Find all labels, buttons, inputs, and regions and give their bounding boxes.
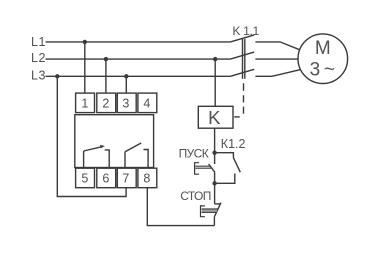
terminal 5 box: [76, 168, 95, 188]
pushbutton СТОП cap bracket: [201, 206, 205, 217]
wire pole 2 to motor: [255, 58, 298, 60]
wire L2 bus: [46, 58, 231, 60]
svg-text:K: K: [208, 107, 221, 128]
wire L3 bus: [46, 75, 231, 77]
wire L2 to terminal 2: [105, 59, 107, 93]
contactor K1.1 linkage bar (double line): [242, 39, 244, 79]
wire coil K to start node: [214, 128, 216, 153]
svg-text:K 1.1: K 1.1: [232, 24, 259, 38]
svg-text:L2: L2: [31, 51, 46, 65]
internal contact 7-8 blade: [125, 143, 141, 152]
terminal 4 box: [138, 93, 157, 113]
node junction L1-terminal1: [83, 40, 87, 44]
wire L1 bus: [46, 41, 231, 43]
svg-text:3 ~: 3 ~: [310, 60, 335, 81]
svg-text:L1: L1: [31, 35, 46, 49]
contact K1.2 branch top wire: [215, 153, 234, 158]
terminal 7 box: [117, 168, 136, 188]
mechanical link dashed to coil K: [243, 83, 245, 91]
terminal 3 box: [117, 93, 136, 113]
motor M 3~ circle: [298, 34, 348, 84]
internal contact 5-6 left lead: [83, 151, 85, 168]
contactor K1.1 pole 2 blade: [230, 52, 254, 59]
svg-text:M: M: [315, 38, 331, 59]
wire L2 to coil K: [214, 59, 216, 106]
node junction L2-coil K: [213, 57, 217, 61]
wire pole 3 to motor: [255, 70, 300, 77]
coil K box: [198, 106, 233, 128]
node bottom parallel junction: [212, 181, 216, 185]
wire pole 1 to motor: [255, 42, 299, 50]
svg-text:К1.2: К1.2: [221, 137, 246, 151]
contactor K1.1 pole 3 blade: [230, 69, 254, 76]
pushbutton ПУСК bottom lead: [214, 172, 216, 183]
wire L3 left drop to terminal 7 loop: [57, 76, 126, 196]
pushbutton ПУСК top lead: [214, 153, 216, 164]
node top parallel junction: [212, 151, 216, 155]
wire L3 to terminal 3: [125, 76, 127, 93]
wire L1 to terminal 1: [84, 42, 86, 93]
wire terminal 8 down to stop button: [147, 188, 214, 226]
terminal 1 box: [76, 93, 95, 113]
svg-text:СТОП: СТОП: [180, 189, 211, 203]
pushbutton ПУСК rod (double line): [195, 165, 210, 167]
svg-text:8: 8: [143, 172, 150, 186]
relay body outline: [75, 115, 154, 168]
pushbutton СТОП rod (double line with grey core): [202, 209, 217, 212]
svg-text:4: 4: [143, 97, 150, 111]
svg-text:7: 7: [122, 172, 129, 186]
node junction L3-terminal3: [124, 74, 128, 78]
node junction L2-terminal2: [104, 57, 108, 61]
internal contact 5-6 right lead: [105, 150, 110, 168]
pushbutton СТОП blade: [214, 203, 221, 217]
svg-text:3: 3: [122, 97, 129, 111]
svg-text:ПУСК: ПУСК: [179, 146, 209, 160]
pushbutton СТОП fixed contact tick: [215, 203, 220, 205]
contactor K1.1 pole 1 blade: [230, 35, 254, 42]
terminal 6 box: [97, 168, 116, 188]
node junction L3-left drop: [55, 74, 59, 78]
internal contact 7-8 left lead: [124, 152, 126, 168]
terminal 2 box: [97, 93, 116, 113]
svg-text:1: 1: [81, 97, 88, 111]
terminal 8 box: [138, 168, 157, 188]
svg-text:2: 2: [102, 97, 109, 111]
svg-text:6: 6: [102, 172, 109, 186]
internal contact 7-8 right lead: [144, 150, 149, 168]
svg-text:5: 5: [81, 172, 88, 186]
pushbutton СТОП bottom lead: [213, 217, 215, 226]
contact K1.2 bottom lead: [215, 174, 235, 184]
contact K1.2 blade: [233, 158, 240, 173]
svg-text:L3: L3: [31, 68, 46, 82]
pushbutton ПУСК cap bracket: [195, 163, 199, 175]
pushbutton ПУСК blade: [209, 164, 215, 172]
internal contact 5-6 blade with arrow tip: [84, 147, 103, 151]
pushbutton СТОП top lead: [214, 183, 216, 204]
